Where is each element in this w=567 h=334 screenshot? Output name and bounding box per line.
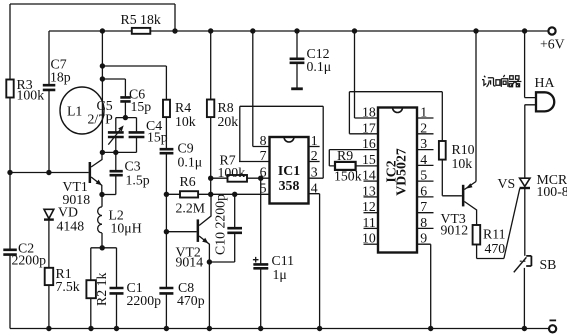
svg-text:VS: VS bbox=[498, 176, 516, 191]
wire C6 branch bbox=[102, 79, 125, 97]
svg-text:7: 7 bbox=[420, 199, 427, 214]
wire C6 to trimmer node bbox=[124, 101, 126, 117]
svg-text:10k: 10k bbox=[175, 114, 196, 129]
svg-text:20k: 20k bbox=[218, 114, 239, 129]
wire C7 branch from rail bbox=[48, 31, 50, 173]
svg-text:470: 470 bbox=[485, 241, 506, 256]
wire IC2 pin 10 stub bbox=[364, 243, 379, 245]
wire VT1 base line bbox=[10, 172, 89, 174]
wire IC2 pin 12 stub bbox=[364, 212, 379, 214]
svg-text:18: 18 bbox=[362, 105, 376, 120]
wire tank vertical x=102.4 bbox=[101, 31, 103, 152]
junction C8 ground bbox=[164, 326, 169, 331]
capacitor C10 bbox=[227, 194, 242, 262]
junction L2 bottom bbox=[100, 245, 105, 250]
resistor R1 bbox=[45, 268, 54, 285]
wire IC2 pin 14 stub bbox=[364, 180, 379, 182]
inductor L2 bbox=[98, 195, 102, 248]
wire SCR anode up to speaker bbox=[524, 105, 526, 178]
label 讯响器 (drawn strokes) bbox=[482, 75, 521, 87]
svg-text:L1: L1 bbox=[67, 104, 82, 119]
wire pin5 net bbox=[166, 193, 269, 195]
svg-text:HA: HA bbox=[535, 75, 555, 90]
wire C8 to ground bbox=[165, 293, 167, 328]
junction pin8 rail bbox=[250, 28, 255, 33]
label VD 4148 bbox=[57, 205, 85, 234]
label IC1 358 bbox=[278, 163, 300, 193]
junction R8 rail bbox=[208, 28, 213, 33]
svg-text:R6: R6 bbox=[180, 174, 196, 189]
svg-text:C3: C3 bbox=[125, 159, 141, 174]
label MCR 100-8 bbox=[537, 172, 567, 199]
wire IC1 pin 8 to rail bbox=[253, 31, 270, 147]
svg-text:8: 8 bbox=[420, 215, 427, 230]
junction C10 top bbox=[232, 192, 237, 197]
svg-text:15p: 15p bbox=[131, 99, 152, 114]
wire R11 bottom to gate bbox=[477, 245, 504, 259]
label C4 15p bbox=[146, 118, 168, 145]
junction pin9 ground bbox=[428, 326, 433, 331]
wire R4 branch bbox=[102, 66, 166, 100]
svg-text:C9: C9 bbox=[178, 141, 194, 156]
svg-text:1.5p: 1.5p bbox=[126, 173, 150, 188]
capacitor C2 bbox=[3, 250, 16, 255]
diode VD bbox=[44, 209, 54, 218]
svg-text:100k: 100k bbox=[218, 165, 246, 180]
wire IC2 pin 16 to R9 left bbox=[329, 150, 378, 166]
resistor R10 bbox=[439, 141, 446, 160]
label R4 10k bbox=[175, 100, 196, 129]
wire SCR gate diagonal bbox=[504, 188, 520, 258]
capacitor C4 bbox=[129, 132, 145, 137]
junction R2 ground bbox=[88, 326, 93, 331]
label C3 1.5p bbox=[125, 159, 150, 188]
svg-text:15: 15 bbox=[362, 152, 376, 167]
svg-text:6: 6 bbox=[420, 183, 427, 198]
op-amp IC1 bbox=[270, 137, 309, 204]
svg-text:17: 17 bbox=[362, 120, 376, 135]
resistor R4 bbox=[163, 100, 170, 117]
junction C12 rail bbox=[294, 28, 299, 33]
junction HA rail bbox=[522, 28, 527, 33]
svg-text:2/7P: 2/7P bbox=[88, 112, 114, 127]
junction collector node bbox=[100, 150, 105, 155]
svg-text:100-8: 100-8 bbox=[537, 184, 567, 199]
wire IC2 pin 8 stub bbox=[417, 227, 434, 229]
wire IC2 pin 6 stub bbox=[417, 196, 434, 198]
svg-text:6: 6 bbox=[260, 165, 267, 180]
svg-text:13: 13 bbox=[362, 183, 376, 198]
junction R4 tap bbox=[100, 63, 105, 68]
thyristor VS bbox=[520, 178, 530, 186]
capacitor C5 trimmer bbox=[108, 132, 124, 137]
wire IC2 pin 1 stub bbox=[417, 117, 434, 119]
svg-text:11: 11 bbox=[363, 215, 376, 230]
capacitor C7 bbox=[43, 85, 56, 90]
svg-text:2: 2 bbox=[311, 148, 318, 163]
wire IC2 pin 18 to rail bbox=[355, 31, 379, 118]
label R7 100k bbox=[218, 153, 246, 181]
svg-text:9014: 9014 bbox=[176, 255, 204, 270]
svg-text:0.1μ: 0.1μ bbox=[178, 155, 203, 170]
wire VT2 emitter bottom bbox=[209, 262, 234, 329]
wire IC2 pin 5 stub bbox=[417, 180, 434, 182]
label C1 2200p bbox=[127, 280, 162, 308]
svg-text:2.2M: 2.2M bbox=[176, 201, 206, 216]
junction VT2 base tee bbox=[164, 229, 169, 234]
label VT1 9018 bbox=[63, 179, 91, 207]
inductor L1 bbox=[60, 87, 104, 134]
wire IC2 pin 13 stub bbox=[364, 196, 379, 198]
svg-text:2200p: 2200p bbox=[127, 293, 162, 308]
label R8 20k bbox=[218, 100, 239, 129]
label C5 2/7P bbox=[88, 98, 114, 127]
resistor R11 bbox=[473, 225, 481, 245]
wire emitter node to C3 bbox=[102, 194, 116, 196]
wire IC2 pin 17 loop to R10 bbox=[349, 92, 442, 141]
label C6 15p bbox=[129, 87, 151, 115]
label R9 150k bbox=[334, 148, 362, 184]
label R6 2.2M bbox=[176, 174, 206, 216]
junction C3 top bbox=[113, 150, 118, 155]
wire C5/C4 parallel box bbox=[102, 118, 136, 153]
wire IC2 pin 3 stub bbox=[417, 149, 434, 151]
wire VT2 base line bbox=[166, 231, 196, 233]
transistor VT3 bbox=[462, 185, 465, 207]
terminal +6V bbox=[548, 27, 555, 34]
svg-text:5: 5 bbox=[420, 168, 427, 183]
junction R8 bottom / VT2 collector bbox=[208, 192, 213, 197]
wire R9 right to pin 15 bbox=[356, 165, 378, 167]
svg-text:C11: C11 bbox=[272, 253, 295, 268]
svg-text:1: 1 bbox=[311, 133, 318, 148]
svg-text:9: 9 bbox=[420, 231, 427, 246]
junction VT3 emitter rail bbox=[473, 28, 478, 33]
wire IC1 pin 7 loop to pin 3 bbox=[239, 106, 323, 178]
junction emitter-C10 bbox=[207, 259, 212, 264]
wire HA feed from rail bbox=[524, 31, 526, 98]
resistor R8 bbox=[207, 100, 214, 118]
transistor VT2 bbox=[197, 219, 200, 242]
wire R7 / pin6 line bbox=[211, 177, 270, 179]
svg-text:16: 16 bbox=[362, 136, 376, 151]
svg-text:VD5027: VD5027 bbox=[394, 148, 409, 196]
svg-text:358: 358 bbox=[279, 178, 300, 193]
svg-text:4: 4 bbox=[420, 152, 427, 167]
wire IC1 pin 2 stub bbox=[309, 161, 320, 163]
capacitor C3 bbox=[110, 152, 123, 194]
wire SCR cathode down bbox=[524, 188, 526, 256]
label R1 7.5k bbox=[56, 266, 80, 294]
capacitor C8 bbox=[159, 288, 173, 293]
wire IC2 pin 2 stub bbox=[417, 133, 434, 135]
junction tank-rail bbox=[100, 28, 105, 33]
wire R1 to ground bbox=[48, 285, 50, 328]
wire IC2 pin 11 stub bbox=[364, 227, 379, 229]
svg-text:C10 2200p: C10 2200p bbox=[213, 194, 228, 255]
svg-text:3: 3 bbox=[311, 165, 318, 180]
wire IC2 pin 4 stub bbox=[417, 164, 434, 166]
junction R7-R8 tap bbox=[208, 176, 213, 181]
label R11 470 bbox=[483, 227, 506, 257]
svg-text:470p: 470p bbox=[177, 293, 205, 308]
svg-text:15p: 15p bbox=[147, 130, 168, 145]
capacitor C12 bbox=[296, 31, 298, 88]
label L2 10uH bbox=[109, 208, 142, 236]
wire +6V rail y=31 bbox=[49, 30, 548, 32]
svg-text:12: 12 bbox=[362, 199, 376, 214]
svg-text:10k: 10k bbox=[452, 156, 473, 171]
junction R5 right / top loop bbox=[172, 28, 177, 33]
svg-text:10: 10 bbox=[362, 231, 376, 246]
junction SB ground bbox=[522, 326, 527, 331]
svg-text:R10: R10 bbox=[452, 142, 475, 157]
svg-text:5: 5 bbox=[260, 180, 267, 195]
junction C6-box bbox=[123, 115, 128, 120]
label R3 100k bbox=[17, 77, 45, 103]
wire top loop from left rail to +V rail bbox=[10, 4, 175, 31]
junction C11 top bbox=[258, 176, 263, 181]
svg-text:SB: SB bbox=[540, 257, 557, 272]
svg-text:8: 8 bbox=[260, 133, 267, 148]
wire base tee to C8 bbox=[165, 232, 167, 288]
svg-text:3: 3 bbox=[420, 136, 427, 151]
encoder IC2 bbox=[378, 108, 417, 253]
svg-text:7: 7 bbox=[260, 148, 267, 163]
svg-text:R4: R4 bbox=[175, 100, 191, 115]
junction emitter node bbox=[99, 192, 104, 197]
wire VT3 emitter to rail bbox=[475, 31, 477, 182]
label C9 0.1u bbox=[178, 141, 203, 170]
label C11 1u bbox=[272, 253, 295, 282]
svg-text:R8: R8 bbox=[218, 100, 234, 115]
label R10 10k bbox=[452, 142, 475, 171]
svg-text:R2 1k: R2 1k bbox=[94, 273, 109, 306]
svg-text:9018: 9018 bbox=[63, 192, 91, 207]
svg-text:1: 1 bbox=[420, 105, 427, 120]
svg-text:1μ: 1μ bbox=[273, 267, 287, 282]
wire IC2 pin 9 to ground bbox=[417, 244, 431, 328]
svg-text:R9: R9 bbox=[337, 148, 353, 163]
label VT3 9012 bbox=[441, 211, 469, 238]
svg-text:100k: 100k bbox=[17, 88, 45, 103]
junction C11 ground bbox=[258, 326, 263, 331]
wire IC1 pin 4 to ground bbox=[309, 194, 320, 329]
svg-text:+6V: +6V bbox=[540, 37, 565, 52]
svg-text:IC1: IC1 bbox=[278, 163, 300, 178]
svg-text:9012: 9012 bbox=[441, 223, 469, 238]
junction base-C7/VD bbox=[46, 170, 51, 175]
resistor R9 bbox=[335, 162, 356, 170]
svg-text:18p: 18p bbox=[50, 70, 71, 85]
label C7 18p bbox=[50, 57, 71, 85]
svg-text:150k: 150k bbox=[334, 169, 362, 184]
svg-text:R11: R11 bbox=[483, 227, 506, 242]
resistor R2 bbox=[86, 280, 96, 298]
junction VT2 ground bbox=[207, 326, 212, 331]
svg-text:10μH: 10μH bbox=[111, 221, 142, 236]
wire left rail x=10 bbox=[9, 4, 11, 329]
resistor R5 bbox=[132, 28, 151, 34]
junction base-left rail bbox=[7, 170, 12, 175]
transistor VT1 bbox=[89, 162, 92, 183]
svg-text:4148: 4148 bbox=[57, 219, 85, 234]
svg-text:7.5k: 7.5k bbox=[56, 279, 80, 294]
junction pin4 ground bbox=[317, 326, 322, 331]
svg-text:2: 2 bbox=[420, 120, 427, 135]
resistor R7 bbox=[228, 175, 248, 182]
capacitor C1 bbox=[110, 288, 124, 293]
wire IC1 pin 1 stub bbox=[309, 146, 320, 148]
capacitor C6 bbox=[120, 97, 130, 101]
svg-text:2200p: 2200p bbox=[12, 253, 47, 268]
junction R6 left bbox=[164, 192, 169, 197]
wire L2 bottom node bar bbox=[91, 248, 117, 288]
wire R4 to C9 bbox=[165, 117, 167, 149]
wire R2 to ground bbox=[90, 298, 92, 328]
label C8 470p bbox=[177, 280, 205, 308]
wire C9 bottom to VT2 base chain bbox=[165, 153, 167, 232]
junction pin18 rail bbox=[352, 28, 357, 33]
switch SB bbox=[514, 257, 527, 272]
svg-text:0.1μ: 0.1μ bbox=[307, 59, 332, 74]
label C2 2200p bbox=[12, 241, 47, 268]
wire R10 to VT3 base bbox=[442, 160, 462, 196]
label C12 0.1u bbox=[307, 46, 332, 74]
junction C1 ground bbox=[114, 326, 119, 331]
svg-text:14: 14 bbox=[362, 168, 376, 183]
svg-text:R5 18k: R5 18k bbox=[121, 12, 161, 27]
wire R8 branch bbox=[210, 31, 212, 194]
wire bottom ground rail bbox=[10, 328, 549, 330]
resistor R3 bbox=[6, 80, 13, 98]
sounder HA bbox=[536, 92, 554, 111]
wire C1 to ground bbox=[116, 293, 118, 328]
label IC2 VD5027 (rotated) bbox=[384, 148, 409, 196]
junction C6 tap bbox=[100, 76, 105, 81]
wire IC2 pin 7 stub bbox=[417, 212, 434, 214]
wire VD to R1 bbox=[48, 220, 50, 268]
capacitor C11 bbox=[253, 178, 268, 328]
junction VD-chain ground bbox=[46, 326, 51, 331]
resistor R6 bbox=[180, 191, 198, 197]
terminal minus bbox=[549, 325, 556, 332]
capacitor C9 bbox=[160, 149, 174, 153]
label VT2 9014 bbox=[176, 245, 204, 270]
